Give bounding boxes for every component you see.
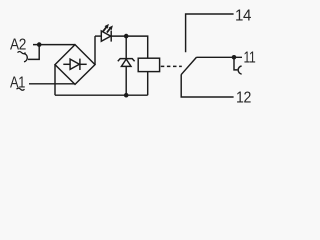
contact armature [181, 57, 197, 75]
bridge diode triangle [70, 59, 79, 69]
wire coil bottom [147, 72, 149, 96]
bridge diode lead left [63, 63, 70, 65]
bridge diode lead right [80, 63, 87, 65]
relay coil K1 [138, 58, 159, 71]
plug socket contact 11 [238, 66, 241, 74]
zener diode cathode bar with hooks [118, 59, 135, 62]
wire zener upper lead [125, 36, 127, 59]
AC tilde under A1 [17, 88, 25, 90]
wire DC minus down from bridge left corner [54, 65, 56, 96]
zener diode triangle [121, 59, 131, 66]
svg-text:14: 14 [235, 8, 252, 25]
bridge diode cathode bar [79, 59, 81, 70]
svg-text:12: 12 [236, 90, 251, 107]
LED triangle [101, 31, 110, 41]
LED emission arrow 1 [103, 27, 107, 32]
node junction dot bottom rail [124, 93, 129, 98]
wire top rail from LED to coil elbow [111, 36, 148, 58]
node junction dot on 11 wire [232, 55, 237, 60]
wire DC plus riser from bridge right corner [94, 36, 96, 65]
wire zener lower lead [125, 66, 127, 95]
wire top rail to LED [95, 35, 101, 37]
node junction dot on A2 wire [37, 42, 42, 47]
AC tilde under A2 [18, 52, 26, 54]
wire terminal 11 [197, 56, 242, 58]
wire plug drop A2 [28, 45, 39, 60]
plug socket contact A2 [24, 54, 27, 62]
wire A2 to bridge top [33, 44, 75, 46]
wire A1 to bridge bottom [29, 83, 75, 85]
svg-text:A2: A2 [10, 37, 26, 54]
actuator dashed link [161, 65, 182, 67]
node junction dot top rail [124, 34, 129, 39]
wire terminal 14 to NO contact [186, 14, 234, 52]
LED cathode bar [110, 31, 112, 42]
LED emission arrow 2 [107, 28, 111, 33]
wire plug drop 11 [234, 57, 237, 70]
wire terminal 12 to armature pivot [181, 75, 233, 97]
svg-text:11: 11 [244, 50, 256, 67]
wire bottom rail [55, 94, 148, 96]
bridge rectifier diamond [55, 45, 95, 85]
